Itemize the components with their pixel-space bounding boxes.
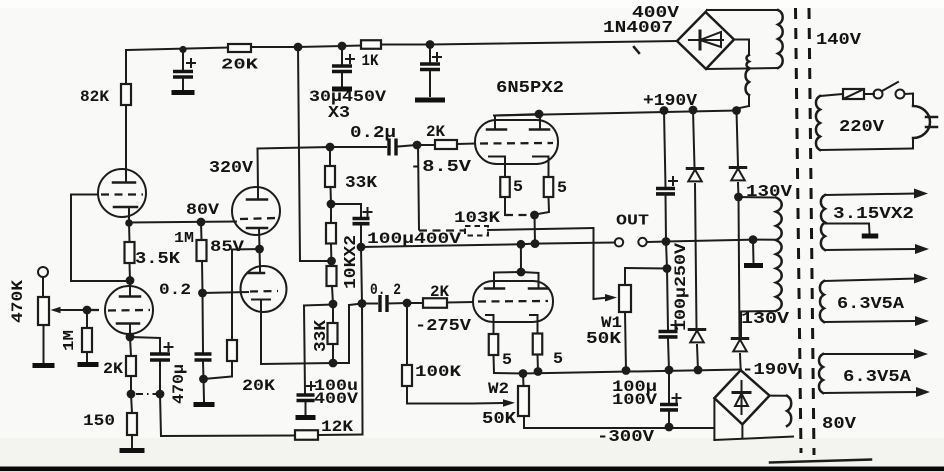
fuse [843,89,864,99]
node [197,218,206,227]
label 130V upper [746,182,792,201]
wire [905,94,914,107]
wire [231,361,233,377]
resistor 10K b [327,266,337,286]
wire [625,312,626,371]
node [327,257,336,266]
resistor 1M lower [82,328,92,352]
node [517,268,526,277]
node [338,42,347,51]
ground [415,98,445,103]
wire [666,240,753,242]
resistor 2K lower [423,283,449,308]
svg-text:80V: 80V [186,201,219,219]
resistor 100K [402,365,412,386]
wire [648,241,666,244]
node [329,300,338,309]
node [517,240,526,249]
bridge rectifier D1 1N4007 [677,12,734,69]
ground [194,402,215,407]
resistor 5 a [500,177,523,197]
wire [664,111,666,188]
wire [129,281,131,297]
node [156,390,165,399]
winding 80V [787,396,791,426]
svg-text:6.3V5A: 6.3V5A [837,294,904,313]
wire [693,110,695,167]
wire [203,379,206,401]
wire [504,197,506,215]
node [535,110,544,119]
winding tap lower [745,69,749,95]
diode D2 [687,169,703,182]
wire [71,195,128,282]
wire [332,304,334,323]
wire [329,147,331,166]
label 1N4007 [603,18,673,37]
wire [668,370,670,403]
node [357,243,366,252]
svg-text:3.5K: 3.5K [135,249,180,268]
pentode V5 envelope [475,120,558,164]
resistor 103K dashed [454,209,500,236]
node [126,333,135,342]
svg-text:5: 5 [553,350,563,368]
triode V1 envelope [98,169,146,217]
svg-text:100µ250V: 100µ250V [672,243,690,331]
svg-text:2K: 2K [103,360,123,378]
capacitor C6 [656,177,677,194]
wire [305,403,307,414]
wire [494,273,539,289]
svg-text:OUT: OUT [616,214,649,230]
triode V1 grid [101,193,143,195]
wire [258,147,331,149]
svg-text:100K: 100K [415,363,461,381]
svg-text:50K: 50K [586,329,621,348]
V5 cathode a [489,157,505,178]
wire [520,244,522,272]
node [665,423,674,432]
wire [737,111,739,167]
wire [822,138,913,150]
svg-text:5: 5 [502,351,512,369]
svg-text:+190V: +190V [643,91,697,110]
wire [447,301,473,304]
svg-text:20K: 20K [242,377,275,395]
label +190V [643,91,697,110]
svg-text:33K: 33K [345,173,377,192]
node [179,46,186,53]
wire [251,46,298,48]
node [327,200,336,209]
wire [668,339,669,370]
svg-text:100V: 100V [612,391,657,409]
wire [304,305,333,306]
ground [296,415,316,420]
svg-text:0.2µ: 0.2µ [350,123,396,142]
node [255,245,264,254]
wire dashdot [136,393,156,395]
node [358,299,367,308]
wire [342,45,361,48]
wire [535,197,549,215]
capacitor 100u400V mid [297,395,315,401]
node [127,390,136,399]
capacitor C3 [420,53,441,70]
capacitor 100µ100V [660,394,681,410]
arrow tap [825,244,929,254]
capacitor 0.2 (85V) [195,354,212,360]
svg-text:320V: 320V [209,158,253,177]
wire [406,303,408,365]
wire [864,93,874,95]
svg-text:470K: 470K [9,280,27,323]
label 6.3V5A b [843,367,911,386]
diode D4 [730,168,746,181]
node [622,366,631,375]
node [665,366,674,375]
wire [298,47,300,261]
svg-text:-300V: -300V [597,427,654,446]
capacitor 470µ [150,343,173,360]
resistor 5 d [533,334,563,369]
triode V4 plate [248,272,264,275]
label 3.15VX2 [833,204,914,223]
wire [398,145,417,147]
label -300V [597,427,654,446]
wire [160,394,161,436]
svg-text:20K: 20K [221,57,258,74]
node [660,106,669,115]
wire [341,74,343,87]
triode V1 plate [113,181,135,184]
pot W1 wiper arrow [594,294,618,302]
node [734,193,743,202]
wire [259,267,261,273]
mains plug [913,106,937,138]
node [694,366,703,375]
svg-text:0. 2: 0. 2 [370,281,401,299]
wire grid V4 [203,292,249,293]
label 80V [186,201,219,219]
svg-text:140V: 140V [816,30,861,49]
wire [740,312,742,338]
capacitor C2 [332,55,354,72]
wire [695,184,697,328]
grid dashes V2 [240,218,278,219]
wire [739,354,742,370]
wire [734,40,749,56]
terminal OUT a [615,238,623,246]
triode V3 grid [108,309,150,312]
wire [129,325,131,337]
svg-text:33K: 33K [311,320,330,352]
label 140V [816,30,861,49]
wire [332,286,333,304]
wire [202,293,205,352]
node [534,367,543,376]
wire dashed [505,214,529,216]
wire [522,374,525,387]
wire [332,344,334,363]
label 100µ400V [367,230,461,248]
wire [741,424,743,437]
wire [668,412,670,427]
svg-text:220V: 220V [839,117,884,136]
V6 plate b [529,287,548,290]
resistor 1M [174,230,207,261]
winding 220V [816,96,820,150]
capacitor 0.2 lower [370,281,401,312]
svg-text:12K: 12K [321,418,353,436]
wire [407,302,423,304]
wire [521,243,535,246]
node [426,40,435,49]
wire [741,310,776,313]
resistor 1K [361,40,381,70]
node [83,306,92,315]
wire [537,355,540,372]
svg-text:103K: 103K [454,209,500,227]
label 80V [822,414,856,433]
resistor 10K a [326,223,336,244]
label -190V [742,360,799,379]
wire [625,268,667,285]
node [663,264,672,273]
wire [86,310,88,328]
terminal input [38,267,48,277]
resistor 82K [80,84,131,106]
ground [33,363,55,368]
V6 plate a [485,287,504,290]
wire [429,72,431,96]
wire [753,239,776,241]
winding tap upper [747,55,749,68]
wire [349,304,362,306]
ground [862,234,879,239]
capacitor 100µ400V [353,208,372,224]
diode D5 [732,339,748,352]
wire [535,243,614,244]
wire [417,144,435,146]
svg-text:1M: 1M [174,230,194,247]
wire [713,398,715,440]
pot wiper arrow [51,307,88,313]
potentiometer 470K [38,297,49,325]
label 100µ 100V [612,378,657,409]
wire [341,46,343,65]
wire [331,204,361,217]
V5 grid [480,142,553,145]
resistor 20K lower [227,340,275,395]
V6 cathode a [486,315,494,334]
wire [318,430,363,435]
triode V3 plate [120,295,140,298]
label 1M [61,330,78,351]
svg-text:130V: 130V [741,309,789,328]
resistor 2K [426,123,457,149]
resistor 3.5K [125,242,181,268]
svg-text:85V: 85V [210,238,244,256]
wire [204,377,233,380]
label 470µ [170,364,188,404]
label 10KX2 [341,235,360,289]
svg-text:2K: 2K [430,283,449,301]
label 220V [839,117,884,136]
wire [125,50,127,84]
wire [362,303,377,305]
svg-text:0.2: 0.2 [159,281,191,299]
svg-text:-275V: -275V [415,316,471,335]
bridge rectifier D6 [714,370,769,424]
capacitor 0.2µ [350,123,396,156]
triode V3 cathode [117,322,139,325]
wire [739,197,740,337]
wire [126,48,228,51]
node [749,235,758,244]
V5 cathode b [533,157,549,178]
wire [407,386,472,404]
wire [418,145,419,230]
wire [201,261,204,293]
potentiometer W1 [586,285,631,348]
wire [361,304,364,431]
wire [330,204,332,223]
wire [666,242,668,331]
node [403,299,412,308]
wire [130,337,160,352]
node [126,276,135,285]
svg-text:X3: X3 [328,103,350,122]
arrow tap [823,349,928,359]
svg-text:10KX2: 10KX2 [341,235,360,289]
label -8.5V [410,157,471,176]
wire [330,146,386,148]
svg-text:1K: 1K [362,52,380,70]
triode V1 cathode [114,206,137,209]
wire [232,249,260,340]
potentiometer W2 [482,380,529,428]
V6 grid [478,300,548,303]
wire [159,362,161,394]
node [125,219,133,227]
scan mark [770,460,871,463]
label 400V [632,3,679,22]
svg-text:3.15VX2: 3.15VX2 [833,204,914,223]
label -275V [415,316,471,335]
wire [737,95,750,111]
wire [131,435,133,447]
label 130V lower [741,309,789,328]
svg-text:5: 5 [513,178,523,196]
triode V4 grid [250,290,278,293]
wire [128,207,130,223]
transformer core [796,8,815,455]
winding 3.15V [821,195,825,250]
switch [874,82,905,99]
wire [488,228,594,299]
wire [387,302,407,305]
wire [259,249,262,267]
ground [78,362,99,367]
wire [534,215,537,244]
grid dashes V3 [91,309,104,311]
wire [665,194,668,242]
pot W2 wiper arrow [472,399,515,407]
V5 plate b [530,128,549,131]
capacitor C1 [173,59,195,77]
wire [257,149,260,200]
wire [333,305,349,363]
wire [298,46,342,47]
resistor 33K lower [328,323,338,344]
triode V4 cathode [252,300,270,306]
wire [42,277,44,297]
resistor 5 c [489,334,512,369]
label 6.3V5A a [837,294,904,313]
node [329,359,338,368]
wire [429,45,431,64]
wire [131,394,132,413]
wire [129,222,236,223]
wire [361,247,362,304]
wire [129,263,132,281]
label 100u 400V [314,377,358,408]
resistor 20K [221,44,258,74]
node [732,106,741,115]
node [662,237,671,246]
wire [495,114,540,116]
wire [706,68,778,69]
svg-text:2K: 2K [426,123,445,141]
terminal OUT b [638,238,646,246]
arrow tap [824,274,928,284]
wire [457,143,475,146]
label 85V [210,238,244,256]
resistor 12K [295,418,353,440]
V6 cathode b [530,315,538,334]
node [294,43,303,52]
wire [161,435,295,438]
wire [182,79,184,91]
wire OUT rail [361,244,521,247]
svg-text:80V: 80V [822,414,856,433]
wire [739,196,777,199]
wire [825,224,870,234]
triode V2 envelope [232,187,280,235]
node [326,143,335,152]
wire [820,94,843,96]
node [530,211,539,220]
svg-text:82K: 82K [80,88,109,106]
svg-text:5: 5 [557,179,567,197]
wire [200,222,203,240]
wire [260,305,262,364]
triode V4 envelope [241,266,287,312]
V5 plate a [487,128,506,131]
wire [261,363,333,364]
ground [744,263,763,268]
label 0.2 [159,281,191,299]
triode V3 envelope [105,286,153,334]
wire [130,337,131,356]
label 470K [9,280,27,323]
node [519,369,528,378]
wire [697,345,698,370]
resistor 5 b [544,177,567,197]
ground [120,448,145,453]
